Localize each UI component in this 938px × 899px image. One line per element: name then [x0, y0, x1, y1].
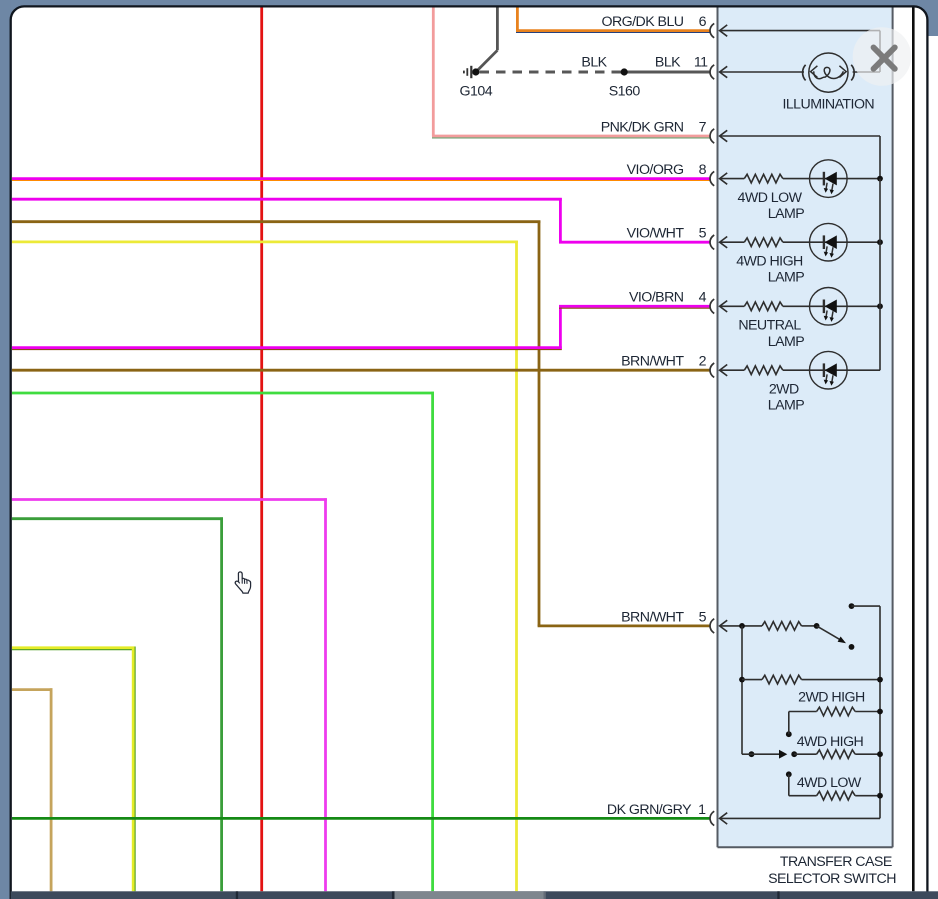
wire VIO/ORG to pin 8 — [12, 177, 710, 180]
lamp bus vertical — [879, 179, 881, 371]
resistor 4WD LOW — [817, 791, 856, 800]
wire BLK dashed G104 to S160 — [480, 71, 622, 74]
wire YEL/DK GRN vertical — [132, 647, 135, 892]
resistor 2WD HIGH — [817, 707, 856, 716]
svg-text:TRANSFER CASE: TRANSFER CASE — [780, 854, 892, 870]
ground G104 — [472, 68, 479, 75]
wire VIO/WHT horizontal from left — [12, 198, 562, 201]
wire VIO/BRN horizontal from left — [12, 346, 562, 349]
wire gray vertical to G104 — [496, 8, 499, 51]
wire red vertical — [260, 8, 263, 892]
wire BRN/WHT to switch pin 5 — [538, 625, 710, 628]
junction dot bus 4WD HIGH — [877, 751, 883, 757]
svg-text:BLK: BLK — [655, 55, 681, 71]
svg-text:6: 6 — [699, 14, 707, 30]
wire pin row NEUTRAL — [720, 305, 745, 307]
LED NEUTRAL lamp — [810, 288, 848, 326]
wire pin row 4WD HIGH — [720, 241, 745, 243]
svg-text:LAMP: LAMP — [768, 270, 805, 286]
svg-text:BRN/WHT: BRN/WHT — [621, 609, 684, 625]
blue page margin top-right corner — [898, 0, 938, 36]
wire VIO vertical — [324, 498, 327, 891]
wire VIO/WHT vertical — [559, 198, 562, 242]
wire DK GRN/GRY to pin 1 — [12, 817, 710, 820]
wire BRN/WHT to pin 2 — [12, 369, 710, 372]
svg-text:LAMP: LAMP — [768, 334, 805, 350]
illumination bulb — [809, 53, 848, 92]
junction dot bus 4WD LOW — [877, 793, 883, 799]
wire contact up to 2WD HIGH resistor — [788, 712, 790, 735]
wire LT GRN vertical — [431, 392, 434, 892]
resistor 4WD HIGH — [817, 750, 856, 759]
svg-text:G104: G104 — [460, 84, 493, 100]
connector pin 6 — [710, 23, 714, 37]
wire TAN horizontal from left — [12, 688, 53, 691]
wire GRN horizontal from left — [12, 517, 223, 520]
svg-text:BRN/WHT: BRN/WHT — [621, 354, 684, 370]
wire 4WD HIGH contact to resistor — [794, 753, 816, 755]
panel border — [717, 8, 719, 848]
svg-text:VIO/ORG: VIO/ORG — [627, 162, 684, 178]
wire 4WD LOW contact to resistor — [788, 774, 790, 795]
wire rail to resistor row 2 — [742, 679, 762, 681]
close button circle — [853, 27, 912, 86]
contact dot 2WD HIGH — [786, 731, 792, 737]
LED 2WD lamp — [810, 351, 848, 389]
wire BRN/WHT vertical — [538, 221, 541, 627]
connector pin 5 switch — [710, 619, 714, 633]
svg-text:5: 5 — [699, 226, 707, 242]
wire VIO horizontal from left — [12, 498, 327, 501]
svg-text:1: 1 — [698, 802, 706, 818]
svg-text:8: 8 — [699, 162, 707, 178]
svg-text:5: 5 — [699, 609, 707, 625]
svg-text:2WD: 2WD — [769, 381, 799, 397]
wire ORG/DK BLU horizontal to pin 6 — [516, 29, 710, 32]
wire ORG/DK BLU vertical — [516, 8, 519, 31]
svg-text:SELECTOR SWITCH: SELECTOR SWITCH — [768, 871, 896, 887]
svg-text:VIO/WHT: VIO/WHT — [627, 226, 685, 242]
wire BLK solid S160 to pin 11 — [624, 71, 710, 74]
svg-text:4: 4 — [699, 290, 707, 306]
wire bus to pin 1 — [720, 817, 880, 819]
switch arm — [817, 626, 841, 640]
blue page margin left strip — [0, 0, 11, 899]
junction dot 4WD HIGH bus — [877, 239, 883, 245]
resistor NEUTRAL lamp — [744, 302, 783, 311]
wire VIO/BRN to pin 4 — [559, 305, 710, 308]
wire upper contact to bus — [852, 605, 881, 607]
svg-text:11: 11 — [694, 55, 708, 71]
svg-text:PNK/DK GRN: PNK/DK GRN — [601, 119, 684, 135]
switch bus vertical — [879, 606, 881, 818]
svg-text:4WD HIGH: 4WD HIGH — [736, 253, 803, 269]
wire VIO/BRN vertical — [559, 306, 562, 349]
connector pin 5 — [710, 235, 714, 249]
wire pin row 4WD LOW — [720, 178, 745, 180]
blue page margin top strip — [0, 0, 938, 7]
svg-text:NEUTRAL: NEUTRAL — [738, 318, 801, 334]
LED 4WD HIGH lamp — [810, 223, 848, 261]
svg-text:S160: S160 — [609, 84, 641, 100]
connector pin 1 — [710, 811, 714, 825]
svg-text:4WD HIGH: 4WD HIGH — [797, 734, 864, 750]
transfer case selector switch panel body — [718, 8, 893, 848]
connector pin 11 — [710, 65, 714, 79]
switch contact dot upper — [849, 603, 855, 609]
svg-text:DK GRN/GRY: DK GRN/GRY — [607, 802, 692, 818]
wire GRN vertical — [220, 517, 223, 891]
wire pin 6 to lamp right side — [720, 30, 880, 32]
contact dot 4WD LOW — [786, 771, 792, 777]
bottom bar light segment — [395, 891, 544, 899]
wire resistor to bus 4WD LOW — [783, 178, 880, 180]
bottom bar separators — [236, 891, 238, 899]
junction dot bus 2WD HIGH — [877, 709, 883, 715]
svg-text:LAMP: LAMP — [768, 206, 805, 222]
resistor switch row 1 — [762, 622, 802, 631]
switch contact dot lower — [849, 644, 855, 650]
junction dot rail row 2 — [739, 677, 745, 683]
splice S160 — [621, 68, 628, 75]
wire PNK/DK GRN vertical — [432, 8, 435, 137]
switch left rail vertical — [741, 626, 743, 754]
wire TAN vertical — [50, 688, 53, 891]
wire PNK/DK GRN horizontal to pin 7 — [432, 135, 710, 138]
wire pin 11 to lamp left side — [720, 71, 804, 73]
svg-text:BLK: BLK — [581, 55, 607, 71]
junction dot rail bottom — [749, 751, 755, 757]
wire pin 5 switch row — [720, 625, 762, 627]
wire 2WD HIGH resistor to bus — [855, 711, 880, 713]
mouse cursor hand pointer — [235, 572, 250, 593]
wire resistor row 2 to bus — [802, 679, 881, 681]
scrollbar line — [912, 8, 915, 892]
resistor switch row 2 — [762, 675, 802, 684]
junction dot bus row 2 — [877, 677, 883, 683]
junction dot 4WD LOW bus — [877, 176, 883, 182]
junction dot switch left rail top — [739, 623, 745, 629]
wire VIO/WHT to pin 5 — [559, 241, 710, 244]
connector pin 4 — [710, 299, 714, 313]
svg-text:VIO/BRN: VIO/BRN — [629, 290, 684, 306]
wire 4WD HIGH resistor to bus — [855, 753, 880, 755]
contact dot 4WD HIGH — [791, 751, 797, 757]
blue page margin top-left corner — [0, 0, 40, 34]
resistor 4WD HIGH lamp — [744, 238, 783, 247]
wire 4WD LOW resistor to bus — [855, 795, 880, 797]
wire resistor to bus 2WD — [783, 369, 880, 371]
resistor 2WD lamp — [744, 366, 783, 375]
bottom bar — [11, 891, 938, 899]
wire gray diagonal to G104 — [477, 50, 497, 70]
wire BRN/WHT horizontal from left — [12, 220, 540, 223]
wire resistor to pivot — [802, 625, 817, 627]
svg-text:2: 2 — [699, 354, 707, 370]
connector pin 7 — [710, 129, 714, 143]
svg-text:7: 7 — [699, 119, 707, 135]
wire pin row 2WD — [720, 369, 745, 371]
wire resistor to bus NEUTRAL — [783, 305, 880, 307]
wire YEL horizontal from left — [12, 240, 518, 243]
svg-text:2WD HIGH: 2WD HIGH — [798, 690, 865, 706]
connector pin 8 — [710, 171, 714, 185]
LED 4WD LOW lamp — [810, 160, 848, 198]
svg-text:ORG/DK BLU: ORG/DK BLU — [601, 14, 683, 30]
svg-text:4WD LOW: 4WD LOW — [738, 190, 803, 206]
wire YEL/DK GRN horizontal from left — [12, 646, 135, 649]
wire pin 7 to lamp bus — [720, 135, 880, 137]
wire resistor to bus 4WD HIGH — [783, 241, 880, 243]
svg-text:4WD LOW: 4WD LOW — [797, 775, 862, 791]
svg-text:ILLUMINATION: ILLUMINATION — [782, 96, 874, 112]
connector pin 2 — [710, 363, 714, 377]
switch pivot dot — [814, 623, 820, 629]
wire rail corner to arrow — [742, 753, 752, 755]
resistor 4WD LOW lamp — [744, 174, 783, 183]
wire YEL vertical — [515, 241, 518, 892]
arrow to 4WD HIGH contact — [779, 750, 787, 759]
junction dot NEUTRAL bus — [877, 303, 883, 309]
wire LT GRN horizontal from left — [12, 392, 434, 395]
close button X — [874, 47, 895, 68]
svg-text:LAMP: LAMP — [768, 398, 805, 414]
